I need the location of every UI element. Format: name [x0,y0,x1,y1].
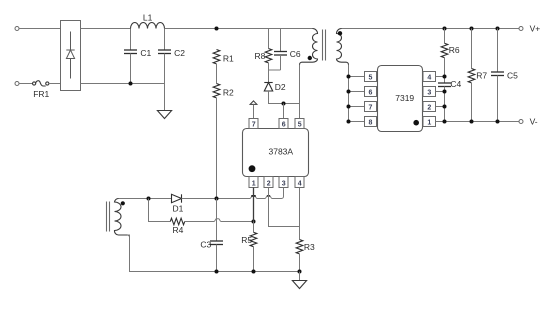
junction dot C3 bottom [215,270,219,274]
terminal V+ [519,27,523,31]
svg-text:6: 6 [369,89,373,96]
transformer T1 secondary [337,29,349,65]
bus tap pin6 [349,91,365,93]
junction dot C5 top [496,27,500,31]
svg-text:C2: C2 [174,48,185,58]
svg-text:R7: R7 [476,70,487,80]
svg-text:7319: 7319 [395,93,414,103]
pin box 6 [279,119,288,129]
pin box 5 [295,119,304,129]
ground bottom [299,272,301,281]
svg-text:C5: C5 [507,70,518,80]
junction dot R7 top [470,27,474,31]
wire D2 to pin5 net [269,91,300,104]
wire pin2 [436,106,445,108]
svg-text:3: 3 [282,180,286,187]
polarity dot secondary [338,31,342,35]
wire aux top to D1 [119,198,172,200]
svg-text:4: 4 [298,180,302,187]
resistor R8 [268,29,270,49]
junction dot C5 bottom [496,120,500,124]
pin box 7 [249,119,258,129]
bus tap pin7 [349,106,365,108]
wire primary bottom to 3783A pin5 [299,65,301,119]
junction dot R6 top [443,27,447,31]
svg-text:R6: R6 [449,45,460,55]
svg-text:7: 7 [252,121,256,128]
pin1 marker dot 3783A [249,165,256,172]
IC U2 7319 body [378,66,423,132]
svg-text:D2: D2 [275,82,286,92]
junction dot R3 ground [298,270,302,274]
svg-text:R4: R4 [173,225,184,235]
svg-text:C4: C4 [450,79,461,89]
svg-text:D1: D1 [173,204,184,214]
wire pin4 down [299,188,301,240]
aux winding coil [114,198,129,237]
pin box 8L [365,117,377,127]
hop blob pin1 [251,195,255,197]
wire fuse to bridge [49,83,61,85]
svg-text:FR1: FR1 [33,89,49,99]
wire bottom input to fuse [19,83,33,85]
pin box 7L [365,102,377,112]
wire secondary bottom bus [349,65,365,122]
wire join to D2 [268,70,270,83]
pin box 4R [423,72,436,82]
pin box 3R [423,87,436,97]
wire R4 to pin1 net with hop [185,219,254,222]
svg-text:R3: R3 [304,242,315,252]
junction dot pin6 [282,102,286,106]
pin box 6L [365,87,377,97]
fuse FR1 [33,81,49,86]
resistor R4 [170,218,184,225]
svg-text:C6: C6 [290,49,301,59]
pin box 2R [423,102,436,112]
diode D1 [172,194,182,202]
resistor R3 [296,240,303,254]
wire R8/C6 join [269,69,281,71]
svg-text:7: 7 [369,104,373,111]
transformer core [322,30,324,61]
junction dot R4 tap [147,197,151,201]
wire bridge out bottom [81,83,165,85]
wire top rail L1 to transformer [165,28,313,30]
wire R2 down to D1 net [216,98,218,199]
junction dot pin1/R5 [252,220,256,224]
resistor R1 [213,50,220,64]
capacitor C2 [164,29,166,51]
wire pin2 to pin4 net [269,188,300,227]
ground under C2 [157,111,171,119]
power arrow above pin7 [250,101,257,105]
svg-text:3: 3 [427,89,431,96]
resistor R6 [444,29,446,44]
svg-text:R1: R1 [223,54,234,64]
junction dot D1 R2 net [215,197,219,201]
polarity dot aux [121,201,125,205]
transformer T1 primary [300,29,318,65]
svg-text:5: 5 [369,74,373,81]
bus corner dot pin8 [347,120,351,124]
svg-text:1: 1 [252,180,256,187]
inductor L1 [131,23,165,29]
wire pin1 V- rail [436,121,520,123]
svg-text:3783A: 3783A [269,146,294,156]
wire pin4 to R6/C4 [436,76,445,78]
pin box 3 [279,177,288,188]
terminal input bottom [15,82,19,86]
IC U1 3783A body [243,129,309,177]
hop blob pin2 [267,195,270,197]
junction dot R1 top [215,27,219,31]
capacitor C1 [130,29,132,51]
resistor R7 [471,29,473,69]
bridge rectifier body [61,21,81,91]
terminal input top [15,27,19,31]
pin box 5L [365,72,377,82]
junction dot pin1 rail [443,120,447,124]
polarity dot primary [308,56,312,60]
svg-text:1: 1 [427,119,431,126]
wire bridge out top [81,28,131,30]
bottom rail [128,235,300,272]
resistor R5 [253,222,255,233]
diode D2 [264,83,272,92]
wire top input to bridge [19,28,61,30]
bus tap pin5 [349,76,365,78]
capacitor C5 [497,29,499,73]
resistor R2 [213,84,220,98]
capacitor C4 [438,82,451,84]
junction dot pin3 [443,90,447,94]
wire R4 branch [149,199,171,222]
terminal V- [519,120,523,124]
junction dot pin4 [443,75,447,79]
svg-text:C1: C1 [140,48,151,58]
junction dot R5 bottom [252,270,256,274]
wire 3783A pin6 stem [283,104,285,119]
pin1 marker dot 7319 [413,120,419,126]
svg-text:2: 2 [427,104,431,111]
svg-text:C3: C3 [200,239,211,249]
junction dot C1 bottom [129,82,133,86]
svg-text:2: 2 [267,180,271,187]
wire D1 cathode to pin3 with hops [182,188,284,199]
wire secondary top rail to V+ [342,28,520,30]
svg-text:4: 4 [427,74,431,81]
capacitor C3 [216,199,218,242]
bridge diode symbol [66,32,74,79]
wire pin1 down (dark) [253,188,255,222]
junction dot pin2 [443,105,447,109]
aux winding core [106,202,108,232]
pin box 1 [249,177,258,188]
svg-text:L1: L1 [143,13,153,23]
wire R1-R2 [216,64,218,84]
svg-text:V+: V+ [530,23,541,33]
junction dot R7 bottom [470,120,474,124]
svg-text:6: 6 [282,121,286,128]
capacitor C6 [280,29,282,52]
pin box 2 [264,177,273,188]
wire pin3 to C4 [436,91,445,93]
svg-text:V-: V- [530,116,538,126]
svg-text:8: 8 [369,119,373,126]
svg-text:R8: R8 [255,51,266,61]
svg-text:5: 5 [298,121,302,128]
pin box 1R [423,117,436,127]
svg-text:R5: R5 [241,235,252,245]
svg-text:R2: R2 [223,88,234,98]
pin box 4 [295,177,304,188]
